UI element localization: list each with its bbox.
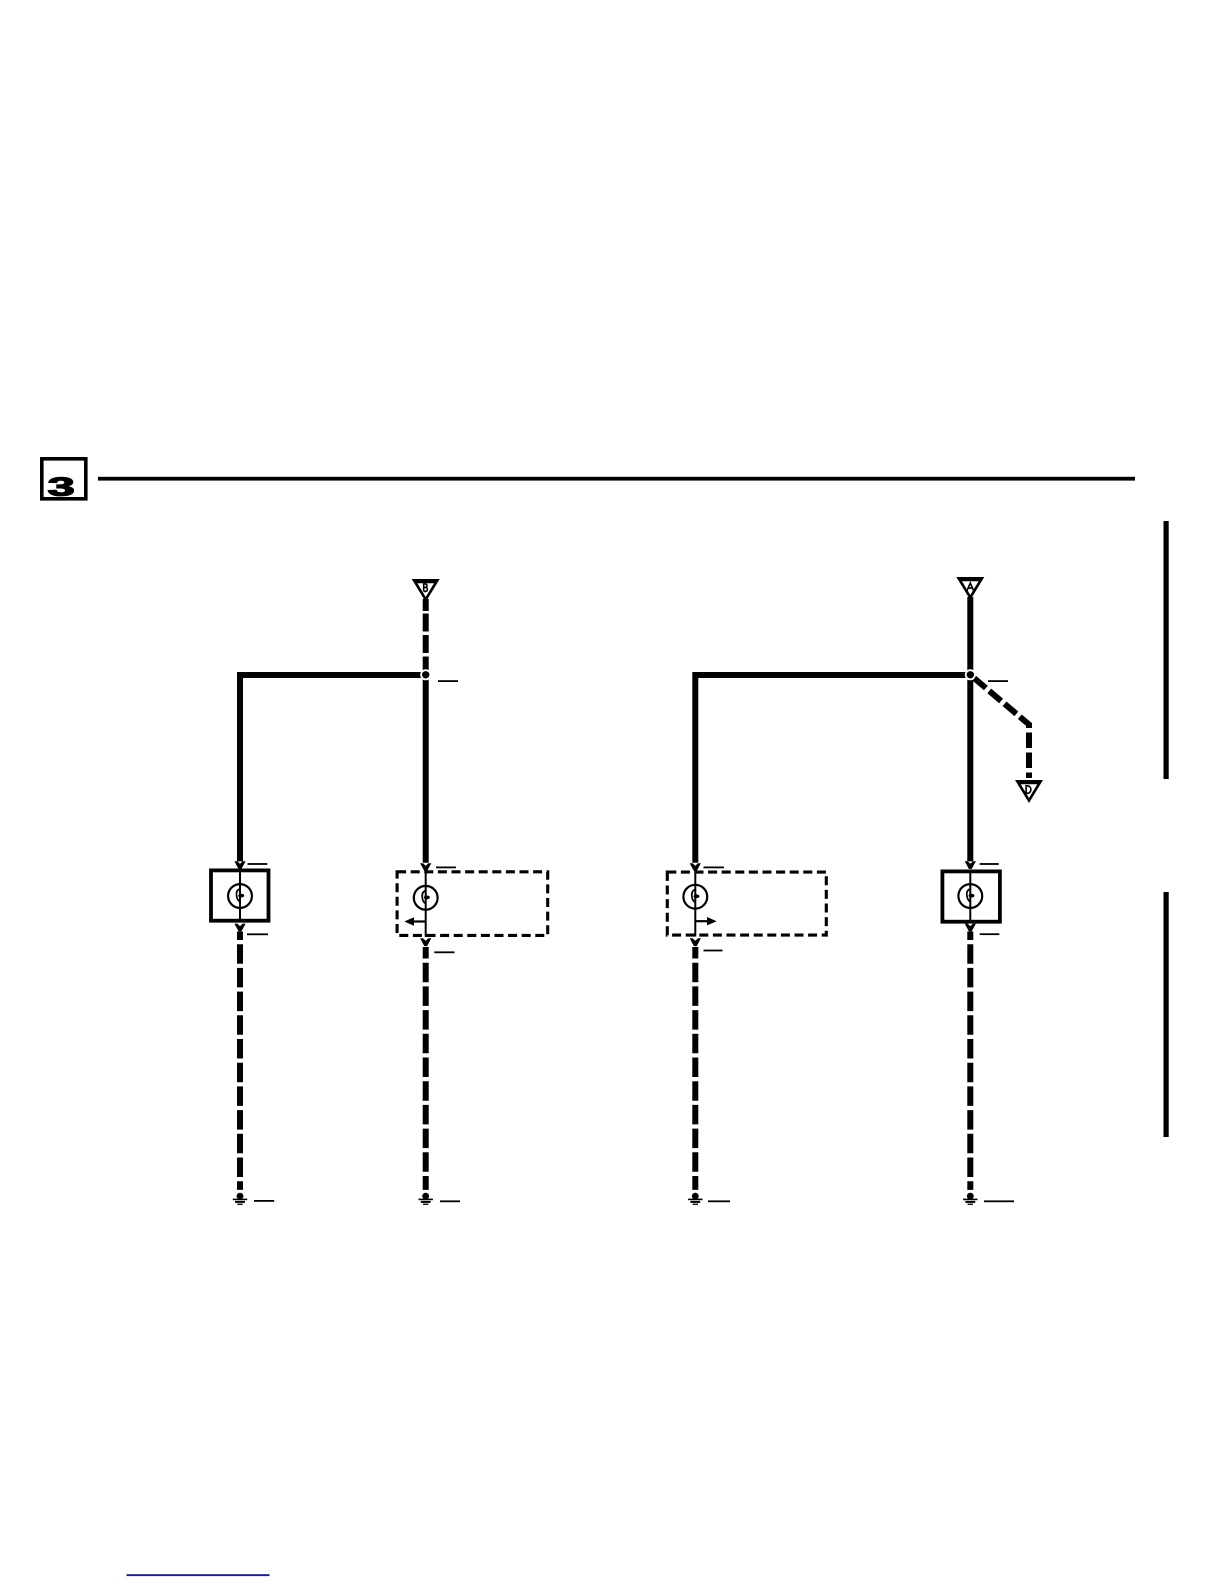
wire right bus: lamp3 up to bus over to junction A — [695, 675, 970, 863]
connector triangle A — [956, 577, 984, 600]
ground symbol 3 — [688, 1193, 702, 1205]
lamp 4 connector arrow bottom — [965, 924, 976, 932]
lamp 1 filament — [236, 889, 240, 902]
label line above lamp 1 — [248, 863, 268, 865]
lamp 3 connector arrow bottom — [690, 938, 701, 946]
connector triangle D — [1015, 780, 1043, 803]
label line above lamp 3 — [704, 867, 725, 869]
wire left bus: lamp1 up to bus over to junction B — [240, 675, 426, 861]
label line at junction A — [988, 680, 1008, 682]
right margin bar upper — [1164, 521, 1169, 779]
label line below lamp 4 — [980, 933, 1000, 935]
label line below lamp 1 — [247, 933, 268, 935]
label line at ground 4 — [984, 1200, 1014, 1202]
wire stub below triangle B — [423, 599, 429, 611]
label line above lamp 2 — [436, 867, 456, 869]
lamp 1 box — [211, 869, 269, 923]
svg-text:3: 3 — [48, 472, 75, 502]
dashed ground wire from lamp 3 — [692, 947, 698, 1190]
lamp 1 bulb circle — [228, 884, 252, 908]
label line at ground 3 — [708, 1200, 730, 1202]
lamp 1 connector arrow top — [234, 861, 245, 869]
lamp 2 bulb circle — [414, 886, 438, 910]
lamp 2 switch arrow pointing left — [413, 920, 426, 922]
lamp 2 filament — [422, 891, 426, 904]
label line at ground 1 — [254, 1200, 274, 1202]
dashed ground wire from lamp 2 — [423, 947, 429, 1190]
section rule — [98, 477, 1135, 481]
ground symbol 1 — [233, 1193, 247, 1205]
wire from A down through junction to lamp 4 — [967, 597, 973, 861]
lamp 3 filament — [692, 890, 696, 903]
wire from junction B down to lamp 2 — [423, 675, 429, 863]
connector triangle B — [412, 579, 440, 602]
lamp 4 bulb circle — [958, 884, 982, 908]
lamp 3 connector arrow top — [690, 863, 701, 871]
page number box 3 — [42, 459, 86, 502]
ground symbol 4 — [963, 1193, 977, 1205]
dashed ground wire from lamp 1 — [237, 932, 243, 1190]
lamp 3 bulb circle — [683, 885, 707, 909]
lamp 4 box — [942, 870, 1000, 924]
lamp 3 dashed component box — [667, 871, 826, 937]
label line above lamp 4 — [980, 863, 999, 865]
dashed wire from junction A to triangle D — [974, 678, 1029, 778]
label line below lamp 2 — [434, 951, 454, 953]
right margin bar lower — [1164, 892, 1169, 1137]
footer hyperlink underline — [127, 1574, 270, 1576]
lamp 2 dashed component box — [397, 870, 548, 937]
junction node on branch A — [965, 669, 976, 680]
lamp 4 connector arrow top — [965, 861, 976, 869]
lamp 2 connector arrow bottom — [420, 938, 431, 946]
dashed wire from B down to junction — [423, 614, 429, 673]
lamp 1 connector arrow bottom — [234, 924, 245, 932]
dashed ground wire from lamp 4 — [967, 932, 973, 1190]
lamp 4 filament — [967, 889, 971, 902]
lamp 2 connector arrow top — [420, 863, 431, 871]
ground symbol 2 — [419, 1193, 433, 1205]
label line at junction B — [438, 680, 458, 682]
junction node on branch B — [420, 669, 431, 680]
label line at ground 2 — [440, 1200, 460, 1202]
label line below lamp 3 — [704, 950, 723, 952]
lamp 3 switch arrow pointing right — [695, 920, 708, 922]
